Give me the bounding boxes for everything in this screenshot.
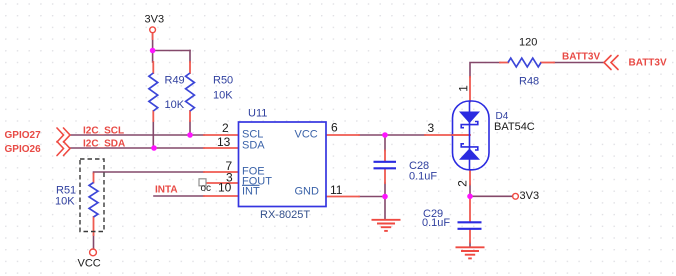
svg-text:GPIO26: GPIO26 <box>5 144 42 155</box>
svg-text:VCC: VCC <box>78 257 101 269</box>
svg-text:U11: U11 <box>248 108 267 120</box>
svg-text:13: 13 <box>217 135 231 149</box>
svg-text:GPIO27: GPIO27 <box>5 130 42 141</box>
svg-text:120: 120 <box>519 37 537 49</box>
svg-text:10K: 10K <box>55 195 75 207</box>
svg-text:INTA: INTA <box>155 185 178 196</box>
svg-text:6: 6 <box>331 121 338 135</box>
svg-text:10K: 10K <box>165 99 185 111</box>
svg-text:0.1uF: 0.1uF <box>422 217 450 229</box>
svg-text:RX-8025T: RX-8025T <box>260 209 310 221</box>
svg-text:3: 3 <box>428 121 435 135</box>
svg-text:0.1uF: 0.1uF <box>409 171 437 183</box>
svg-text:R48: R48 <box>519 76 539 88</box>
svg-text:I2C_SCL: I2C_SCL <box>83 126 124 137</box>
svg-text:R49: R49 <box>165 75 185 87</box>
svg-text:I2C_SDA: I2C_SDA <box>83 139 125 150</box>
svg-text:3V3: 3V3 <box>145 14 165 26</box>
svg-text:BATT3V: BATT3V <box>629 58 667 69</box>
svg-text:SDA: SDA <box>242 140 265 152</box>
svg-text:11: 11 <box>330 183 343 197</box>
svg-text:VCC: VCC <box>295 128 318 140</box>
svg-text:SCL: SCL <box>242 128 263 140</box>
svg-text:D4: D4 <box>496 111 509 122</box>
svg-text:10: 10 <box>218 180 232 194</box>
svg-text:oc: oc <box>201 183 212 194</box>
svg-text:10K: 10K <box>213 90 233 102</box>
svg-text:2: 2 <box>222 121 229 135</box>
svg-text:INT: INT <box>242 186 260 198</box>
svg-text:BATT3V: BATT3V <box>562 52 600 63</box>
svg-text:GND: GND <box>295 186 320 198</box>
svg-text:R50: R50 <box>213 75 233 87</box>
svg-text:3V3: 3V3 <box>520 190 540 202</box>
svg-text:BAT54C: BAT54C <box>494 121 535 133</box>
